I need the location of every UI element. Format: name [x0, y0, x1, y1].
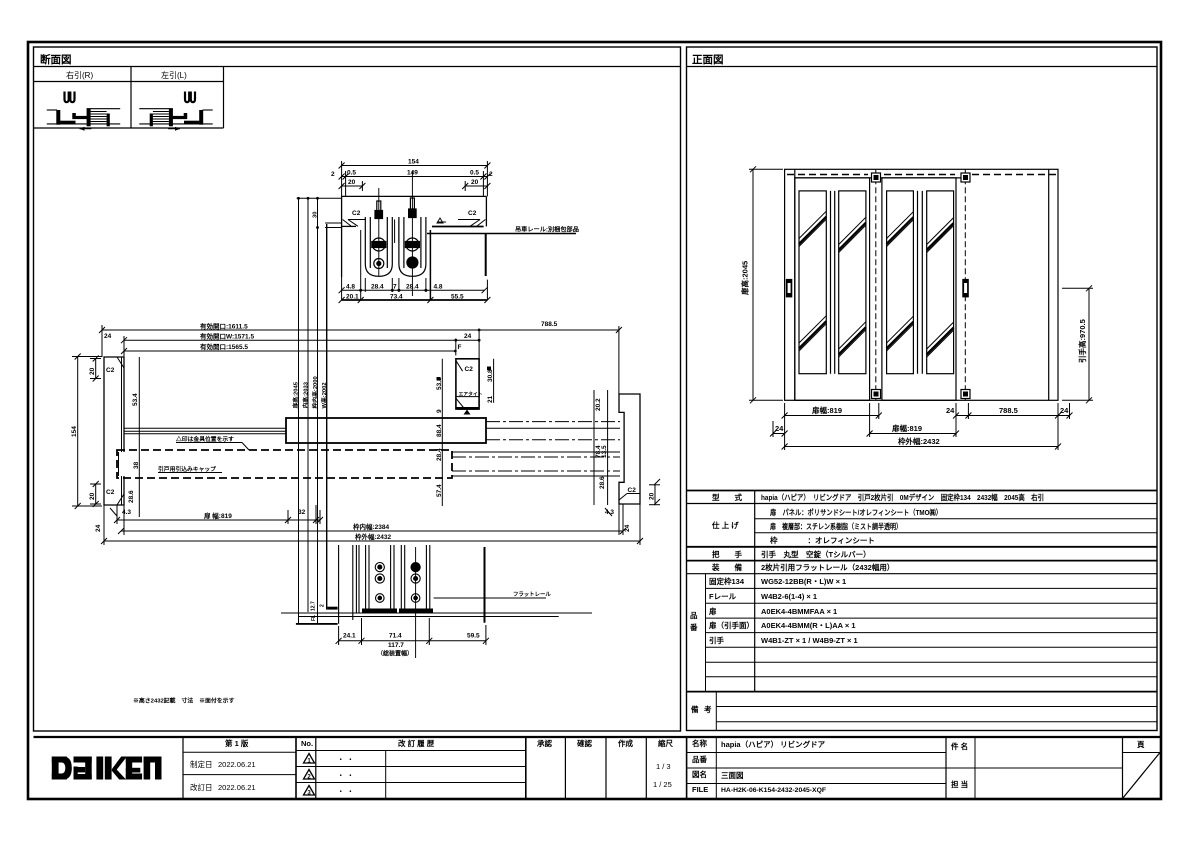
svg-text:引手: 引手	[709, 635, 724, 645]
svg-text:引手高:970.5: 引手高:970.5	[1077, 319, 1087, 363]
svg-text:24: 24	[775, 424, 784, 433]
svg-text:WG52-12BB(R・L)W × 1: WG52-12BB(R・L)W × 1	[761, 577, 846, 586]
svg-text:型 式: 型 式	[712, 492, 742, 502]
svg-text:F: F	[458, 344, 462, 351]
svg-text:C2: C2	[106, 367, 115, 374]
svg-text:20: 20	[471, 179, 479, 186]
svg-text:三面図: 三面図	[721, 771, 744, 780]
svg-text:2枚片引用フラットレール（2432幅用）: 2枚片引用フラットレール（2432幅用）	[761, 562, 894, 572]
svg-text:A0EK4-4BMM(R・L)AA × 1: A0EK4-4BMM(R・L)AA × 1	[761, 621, 856, 630]
svg-text:Fレール: Fレール	[709, 592, 737, 601]
svg-text:55.5: 55.5	[451, 294, 464, 301]
svg-text:12.7: 12.7	[311, 601, 317, 611]
svg-text:2: 2	[320, 604, 326, 607]
svg-text:1 / 3: 1 / 3	[656, 762, 671, 771]
svg-text:117.7: 117.7	[388, 642, 404, 649]
svg-text:24: 24	[1060, 406, 1069, 415]
svg-text:7: 7	[393, 284, 397, 291]
svg-text:2: 2	[331, 171, 335, 178]
svg-text:30.8: 30.8	[487, 369, 494, 382]
svg-text:備: 備	[691, 704, 699, 714]
svg-text:右引(R): 右引(R)	[66, 70, 93, 80]
svg-text:件 名: 件 名	[951, 741, 968, 751]
svg-text:28.6: 28.6	[128, 490, 135, 503]
svg-text:28.6: 28.6	[599, 476, 606, 489]
svg-text:30: 30	[313, 212, 319, 218]
svg-text:固定枠134: 固定枠134	[709, 576, 745, 586]
svg-text:仕 上 げ: 仕 上 げ	[711, 520, 739, 530]
svg-text:20.1: 20.1	[346, 294, 359, 301]
svg-text:88.4: 88.4	[436, 424, 443, 437]
svg-text:改訂日: 改訂日	[190, 782, 213, 792]
svg-text:品番: 品番	[692, 754, 707, 764]
svg-text:枠外幅:2432: 枠外幅:2432	[897, 436, 940, 446]
svg-text:4.3: 4.3	[605, 509, 614, 516]
svg-text:2022.06.21: 2022.06.21	[218, 783, 256, 792]
svg-text:20.2: 20.2	[595, 398, 602, 411]
svg-text:扉 パネル：ポリサンドシート/オレフィンシート（TMO㈱）: 扉 パネル：ポリサンドシート/オレフィンシート（TMO㈱）	[769, 507, 942, 517]
svg-text:788.5: 788.5	[541, 321, 558, 328]
svg-text:承認: 承認	[537, 738, 552, 748]
svg-text:C2: C2	[468, 210, 477, 217]
svg-text:C2: C2	[352, 210, 361, 217]
svg-text:装 備: 装 備	[711, 562, 742, 572]
svg-text:73.4: 73.4	[390, 294, 403, 301]
svg-text:20: 20	[89, 492, 96, 500]
svg-text:0.5: 0.5	[470, 170, 479, 177]
svg-text:C2: C2	[106, 489, 115, 496]
svg-text:1 / 25: 1 / 25	[653, 780, 672, 789]
svg-text:4.3: 4.3	[122, 509, 131, 516]
svg-text:エアタイト: エアタイト	[459, 391, 483, 398]
svg-text:38: 38	[133, 461, 140, 469]
svg-text:（総装置幅）: （総装置幅）	[377, 650, 413, 658]
svg-text:・ ・: ・ ・	[337, 771, 354, 780]
svg-text:扉高:2045: 扉高:2045	[292, 381, 300, 409]
svg-text:番: 番	[689, 622, 698, 632]
svg-text:頁: 頁	[1137, 740, 1145, 749]
svg-text:20: 20	[348, 179, 356, 186]
svg-text:24.1: 24.1	[343, 633, 356, 640]
svg-text:フラットレール: フラットレール	[513, 591, 551, 598]
svg-text:FL: FL	[311, 615, 317, 621]
svg-text:32: 32	[298, 509, 306, 516]
svg-text:品: 品	[690, 611, 698, 620]
svg-text:154: 154	[408, 159, 419, 166]
svg-text:HA-H2K-06-K154-2432-2045-XQF: HA-H2K-06-K154-2432-2045-XQF	[721, 787, 826, 794]
svg-text:W高:2002: W高:2002	[320, 382, 328, 408]
svg-text:有効開口:1611.5: 有効開口:1611.5	[200, 322, 248, 331]
svg-text:28.4: 28.4	[371, 284, 384, 291]
svg-text:13.5: 13.5	[601, 445, 608, 458]
svg-text:考: 考	[704, 704, 712, 714]
svg-text:9: 9	[436, 409, 443, 413]
svg-text:扉 複層部：スチレン系樹脂（ミスト調半透明）: 扉 複層部：スチレン系樹脂（ミスト調半透明）	[769, 521, 902, 531]
svg-text:A0EK4-4BMMFAA × 1: A0EK4-4BMMFAA × 1	[761, 607, 837, 616]
svg-text:有効開口:1565.5: 有効開口:1565.5	[200, 342, 248, 351]
svg-text:扉 幅:819: 扉 幅:819	[204, 511, 232, 520]
svg-text:枠内高:2000: 枠内高:2000	[311, 376, 319, 408]
svg-text:24: 24	[624, 524, 631, 532]
svg-text:縮尺: 縮尺	[658, 738, 673, 748]
svg-text:4.8: 4.8	[434, 284, 443, 291]
svg-text:C2: C2	[628, 487, 637, 494]
svg-text:59.5: 59.5	[467, 633, 480, 640]
svg-text:枠外幅:2432: 枠外幅:2432	[355, 532, 392, 541]
svg-text:有効開口W:1571.5: 有効開口W:1571.5	[200, 332, 254, 341]
svg-text:・ ・: ・ ・	[337, 755, 354, 764]
svg-text:引手 丸型 空錠（Tシルバー）: 引手 丸型 空錠（Tシルバー）	[761, 549, 871, 559]
svg-text:扉高:2045: 扉高:2045	[740, 261, 750, 296]
svg-text:0.5: 0.5	[347, 170, 356, 177]
svg-text:枠内幅:2384: 枠内幅:2384	[353, 522, 390, 531]
svg-text:扉（引手面）: 扉（引手面）	[708, 620, 754, 630]
svg-text:扉: 扉	[708, 606, 717, 616]
svg-text:24: 24	[104, 333, 112, 340]
svg-text:28.4: 28.4	[406, 284, 419, 291]
svg-text:4.8: 4.8	[346, 284, 355, 291]
svg-text:FILE: FILE	[692, 785, 708, 794]
svg-text:53.4: 53.4	[132, 393, 139, 406]
svg-text:左引(L): 左引(L)	[161, 70, 187, 80]
svg-text:C2: C2	[465, 366, 474, 373]
svg-text:71.4: 71.4	[389, 633, 402, 640]
svg-text:788.5: 788.5	[999, 406, 1018, 415]
svg-text:扉幅:819: 扉幅:819	[891, 423, 922, 433]
svg-text:確認: 確認	[576, 738, 592, 748]
svg-text:作成: 作成	[618, 738, 633, 748]
svg-text:△印は金具位置を示す: △印は金具位置を示す	[175, 435, 234, 443]
svg-text:正面図: 正面図	[692, 54, 724, 66]
svg-text:2022.06.21: 2022.06.21	[218, 760, 256, 769]
svg-text:21: 21	[487, 395, 494, 403]
svg-text:W4B2-6(1-4) × 1: W4B2-6(1-4) × 1	[761, 592, 817, 601]
svg-text:名称: 名称	[692, 738, 707, 748]
svg-text:図名: 図名	[692, 769, 707, 779]
svg-text:扉幅:819: 扉幅:819	[811, 405, 842, 415]
svg-text:W4B1-ZT × 1 / W4B9-ZT × 1: W4B1-ZT × 1 / W4B9-ZT × 1	[761, 636, 858, 645]
svg-text:改 訂 履 歴: 改 訂 履 歴	[398, 738, 435, 748]
svg-text:24: 24	[95, 524, 102, 532]
svg-text:No.: No.	[301, 739, 313, 748]
svg-text:枠 ：オレフィンシート: 枠 ：オレフィンシート	[769, 535, 875, 545]
svg-text:制定日: 制定日	[190, 759, 213, 769]
svg-text:第 1 版: 第 1 版	[225, 738, 249, 748]
svg-text:28.4: 28.4	[436, 448, 443, 461]
svg-text:24: 24	[464, 333, 472, 340]
svg-text:24: 24	[946, 406, 955, 415]
svg-text:20: 20	[649, 492, 656, 500]
svg-text:57.4: 57.4	[436, 484, 443, 497]
svg-text:引戸用引込みキャップ: 引戸用引込みキャップ	[158, 465, 216, 473]
svg-text:吊車レール:別梱包部品: 吊車レール:別梱包部品	[515, 226, 579, 234]
svg-text:20: 20	[89, 367, 96, 375]
svg-text:把 手: 把 手	[712, 549, 742, 559]
svg-text:内高:2033: 内高:2033	[301, 381, 309, 408]
svg-text:154: 154	[71, 426, 78, 437]
svg-text:※高さ2432記載 寸法 ※面付を示す: ※高さ2432記載 寸法 ※面付を示す	[133, 697, 235, 705]
svg-text:hapia（ハピア） リビングドア 引戸2枚片引 0Mデザイ: hapia（ハピア） リビングドア 引戸2枚片引 0Mデザイン 固定枠134 2…	[761, 492, 1044, 502]
svg-text:・ ・: ・ ・	[337, 787, 354, 796]
svg-text:担 当: 担 当	[951, 779, 968, 789]
svg-text:断面図: 断面図	[40, 53, 72, 66]
svg-text:hapia（ハピア） リビングドア: hapia（ハピア） リビングドア	[721, 739, 826, 749]
